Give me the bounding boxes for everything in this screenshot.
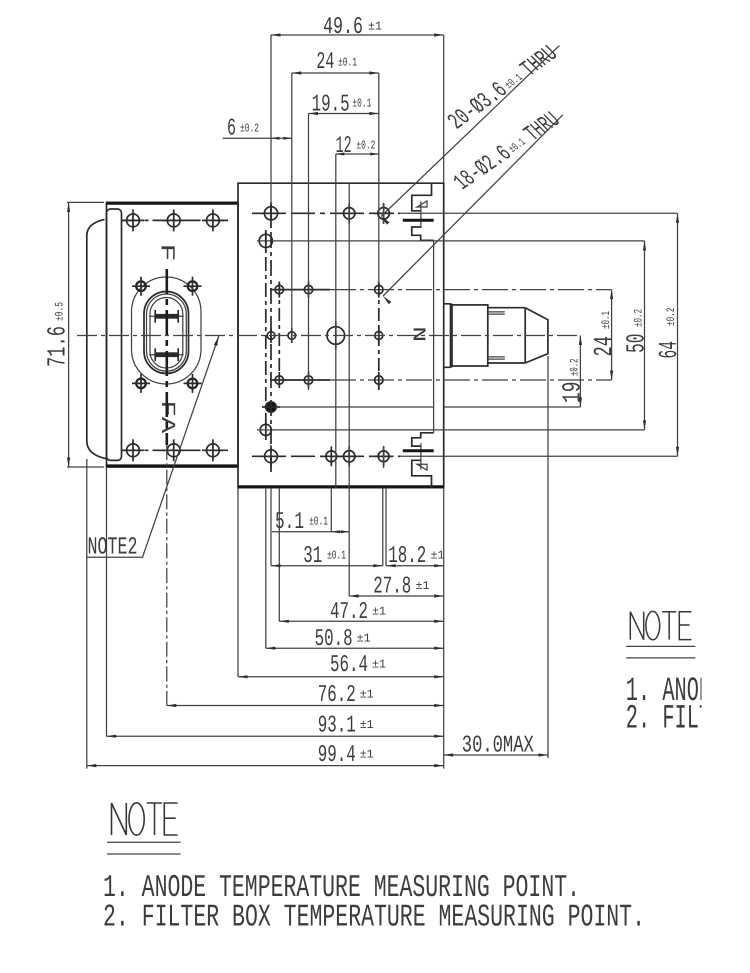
center hole small A <box>267 332 275 340</box>
svg-text:±1: ±1 <box>360 748 374 762</box>
svg-text:93.1: 93.1 <box>318 713 356 740</box>
svg-text:18.2: 18.2 <box>388 543 426 570</box>
window corner hole 3 <box>136 379 146 389</box>
dim 12 <box>336 153 379 155</box>
svg-text:±1: ±1 <box>360 688 374 702</box>
svg-text:±0.2: ±0.2 <box>240 122 259 136</box>
plate bottom hole 2 <box>326 451 337 462</box>
plate top hole row centerline <box>252 212 400 214</box>
column c336 through plate <box>335 183 337 488</box>
center hole small B <box>288 332 296 340</box>
upper small hole 3 <box>375 285 383 293</box>
column c309 through plate <box>308 183 310 390</box>
dim 47.2 <box>279 620 443 622</box>
plate top hole 1 <box>264 207 277 220</box>
plate bottom hole 1 <box>265 450 278 463</box>
plate top hole 3 <box>378 208 390 220</box>
dim 18.2 <box>386 565 444 567</box>
column c349 through plate <box>348 183 350 488</box>
bottom cutout thick bar <box>403 449 434 452</box>
window corner hole 2 <box>188 281 198 291</box>
dim 71.6 extension lines <box>67 201 104 203</box>
svg-text:27.8: 27.8 <box>373 574 411 601</box>
svg-text:±1: ±1 <box>416 579 430 593</box>
svg-text:50.8: 50.8 <box>315 626 353 653</box>
leader 18-dia2.6 THRU <box>383 115 563 296</box>
oval waveguide window inner ring <box>150 298 183 369</box>
top cutout thick bar <box>403 219 434 222</box>
dim 19.5 <box>309 113 379 115</box>
dim 99.4 <box>87 765 444 767</box>
extension line y214 right <box>400 212 678 214</box>
flange mounting hole bottom 1 <box>127 444 140 457</box>
upper small hole 1 <box>275 285 283 293</box>
dim 19 vertical <box>579 336 581 408</box>
dim 6 <box>223 137 292 139</box>
plate bottom hole 4 <box>378 451 389 462</box>
antenna cap clip slots <box>488 312 505 359</box>
center large hole <box>327 327 345 345</box>
svg-text:±0.2: ±0.2 <box>569 358 582 376</box>
dim 30.0MAX <box>444 754 548 756</box>
svg-text:64: 64 <box>654 341 684 359</box>
flange mounting hole top 1 <box>127 214 140 227</box>
svg-text:19.5: 19.5 <box>312 91 350 118</box>
construction line y242 <box>257 240 645 242</box>
plate bottom hole row centerline <box>252 455 400 457</box>
main mounting plate outline <box>238 183 444 488</box>
antenna tip extension line <box>547 356 549 758</box>
extension line y454 right <box>400 455 678 457</box>
svg-text:12: 12 <box>336 133 352 160</box>
svg-text:50: 50 <box>622 334 652 354</box>
svg-text:99.4: 99.4 <box>318 742 356 769</box>
column c292 through plate <box>291 183 293 343</box>
svg-text:±0.2: ±0.2 <box>356 139 375 153</box>
construction line y429 <box>257 429 645 431</box>
plate top hole 2 <box>344 208 355 219</box>
plate bottom hole 3 <box>344 451 355 462</box>
flange vertical centerline (thick through window) <box>166 269 169 445</box>
window corner hole 4 <box>188 379 198 389</box>
svg-text:±1: ±1 <box>372 658 386 672</box>
column line c271 dash-dot <box>270 204 272 472</box>
dim 31 <box>271 565 383 567</box>
flange mounting hole bottom 2 <box>167 444 180 457</box>
ext lines below plate <box>330 488 332 532</box>
dim 50 vertical <box>644 241 646 430</box>
upper small hole row <box>270 289 330 291</box>
svg-text:±1: ±1 <box>431 549 445 563</box>
dim 24 <box>292 72 379 74</box>
svg-text:±0.1: ±0.1 <box>327 549 346 563</box>
hole lower-left <box>260 424 271 435</box>
dim 71.6 <box>68 202 70 467</box>
svg-text:71.6: 71.6 <box>43 326 73 367</box>
lower small hole row <box>270 379 330 381</box>
dim 49.6 <box>271 34 444 36</box>
dim 5.1 <box>272 531 349 533</box>
window corner hole 1 <box>136 281 146 291</box>
svg-text:6: 6 <box>227 115 236 142</box>
svg-text:30.0MAX: 30.0MAX <box>462 733 534 760</box>
dim 76.2 <box>167 705 444 707</box>
flange top hole row centerline <box>123 219 229 221</box>
svg-text:±0.1: ±0.1 <box>600 311 613 329</box>
NOTE2 leader line <box>86 336 219 557</box>
svg-text:±0.1: ±0.1 <box>338 56 357 70</box>
svg-text:±0.5: ±0.5 <box>54 302 67 321</box>
svg-text:24: 24 <box>589 336 619 357</box>
dim 24 extension lines <box>291 73 293 183</box>
svg-text:5.1: 5.1 <box>275 509 304 536</box>
oval waveguide window middle rings <box>144 292 189 374</box>
dim 93.1 <box>107 735 444 737</box>
construction line y407 <box>277 406 434 408</box>
dim 24 vertical <box>611 290 613 380</box>
column c379 through plate <box>378 283 380 390</box>
svg-text:F: F <box>155 244 178 262</box>
right note item 1 <box>626 673 750 739</box>
column line c265 dash-dot <box>265 231 267 440</box>
svg-text:76.2: 76.2 <box>318 682 356 709</box>
svg-text:±0.1: ±0.1 <box>309 515 328 529</box>
svg-text:N: N <box>412 326 432 342</box>
upper small hole 2 <box>304 285 312 293</box>
svg-text:±0.2: ±0.2 <box>665 307 678 326</box>
dim 19.5 extension line <box>308 114 310 184</box>
leader 20-dia3.6 THRU <box>381 46 559 217</box>
column c384 ticks <box>383 204 385 224</box>
flange mounting hole bottom 3 <box>207 444 220 457</box>
lower small hole 1 <box>275 376 283 384</box>
dim 56.4 <box>238 676 444 678</box>
center hole small C <box>375 332 383 340</box>
svg-text:±1: ±1 <box>372 605 386 619</box>
svg-text:±1: ±1 <box>357 632 371 646</box>
svg-text:19: 19 <box>558 382 588 404</box>
NOTE heading <box>112 803 178 835</box>
NOTE heading right <box>630 611 691 639</box>
svg-text:49.6: 49.6 <box>323 14 363 41</box>
flange mounting hole top 2 <box>167 214 180 227</box>
column line c278 <box>278 283 280 386</box>
bottom edge cutout with bent tab <box>412 433 434 446</box>
dim 49.6 extension lines <box>270 35 272 204</box>
dim 64 vertical <box>677 213 679 456</box>
antenna dome tip <box>525 308 548 363</box>
svg-text:24: 24 <box>316 49 334 76</box>
lower small hole 3 <box>375 376 383 384</box>
main horizontal centerline <box>77 335 580 337</box>
svg-text:±0.1: ±0.1 <box>352 97 371 111</box>
svg-text:±1: ±1 <box>368 20 382 34</box>
flange bottom hole row centerline <box>123 449 229 451</box>
fold line between cutouts <box>433 240 435 432</box>
antenna neck flange <box>444 304 453 368</box>
svg-text:±1: ±1 <box>360 718 374 732</box>
flange cover wing (left bent plate) <box>87 219 108 459</box>
svg-text:47.2: 47.2 <box>330 599 368 626</box>
window slot upper <box>149 315 184 317</box>
svg-text:±0.2: ±0.2 <box>633 309 646 327</box>
oval waveguide window outer ring <box>132 277 202 384</box>
flange gasket strip edge-on <box>107 209 122 460</box>
antenna cap <box>488 308 525 363</box>
window slot lower <box>149 354 184 356</box>
hole below-left <box>259 234 272 247</box>
lower small hole 2 <box>304 376 312 384</box>
waveguide flange plate <box>107 202 239 467</box>
antenna cylinder <box>452 305 488 366</box>
dim 50.8 <box>266 647 444 649</box>
svg-text:2. FILTER BOX TEMPERATURE MEAS: 2. FILTER BOX TEMPERATURE MEASURING POIN… <box>103 901 645 936</box>
svg-text:31: 31 <box>303 543 322 570</box>
svg-text:56.4: 56.4 <box>330 652 368 679</box>
top edge cutout with bent tab <box>412 184 432 211</box>
dim 12 extension line <box>335 154 337 183</box>
dim 27.8 <box>349 595 444 597</box>
flange mounting hole top 3 <box>207 214 220 227</box>
anode temperature measuring point NOTE1 (filled) <box>266 402 276 412</box>
